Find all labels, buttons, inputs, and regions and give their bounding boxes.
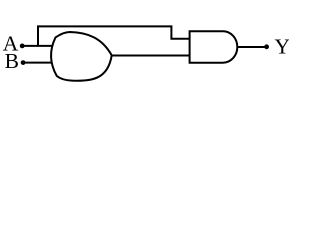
svg-text:Y: Y bbox=[275, 35, 290, 59]
junction dot input B bbox=[21, 60, 26, 65]
junction dot input A bbox=[20, 44, 25, 49]
svg-text:B: B bbox=[5, 49, 19, 73]
wire AND gate output to Y bbox=[237, 46, 266, 48]
wire A input to OR gate bbox=[22, 45, 53, 47]
OR gate U1 bbox=[51, 32, 112, 81]
junction dot output Y bbox=[264, 44, 269, 49]
wire branch from A up across top to AND gate top input bbox=[38, 26, 190, 46]
wire B input to OR gate bbox=[23, 62, 52, 64]
AND gate U2 bbox=[190, 31, 238, 63]
wire OR gate output to AND gate bottom input bbox=[112, 55, 190, 57]
